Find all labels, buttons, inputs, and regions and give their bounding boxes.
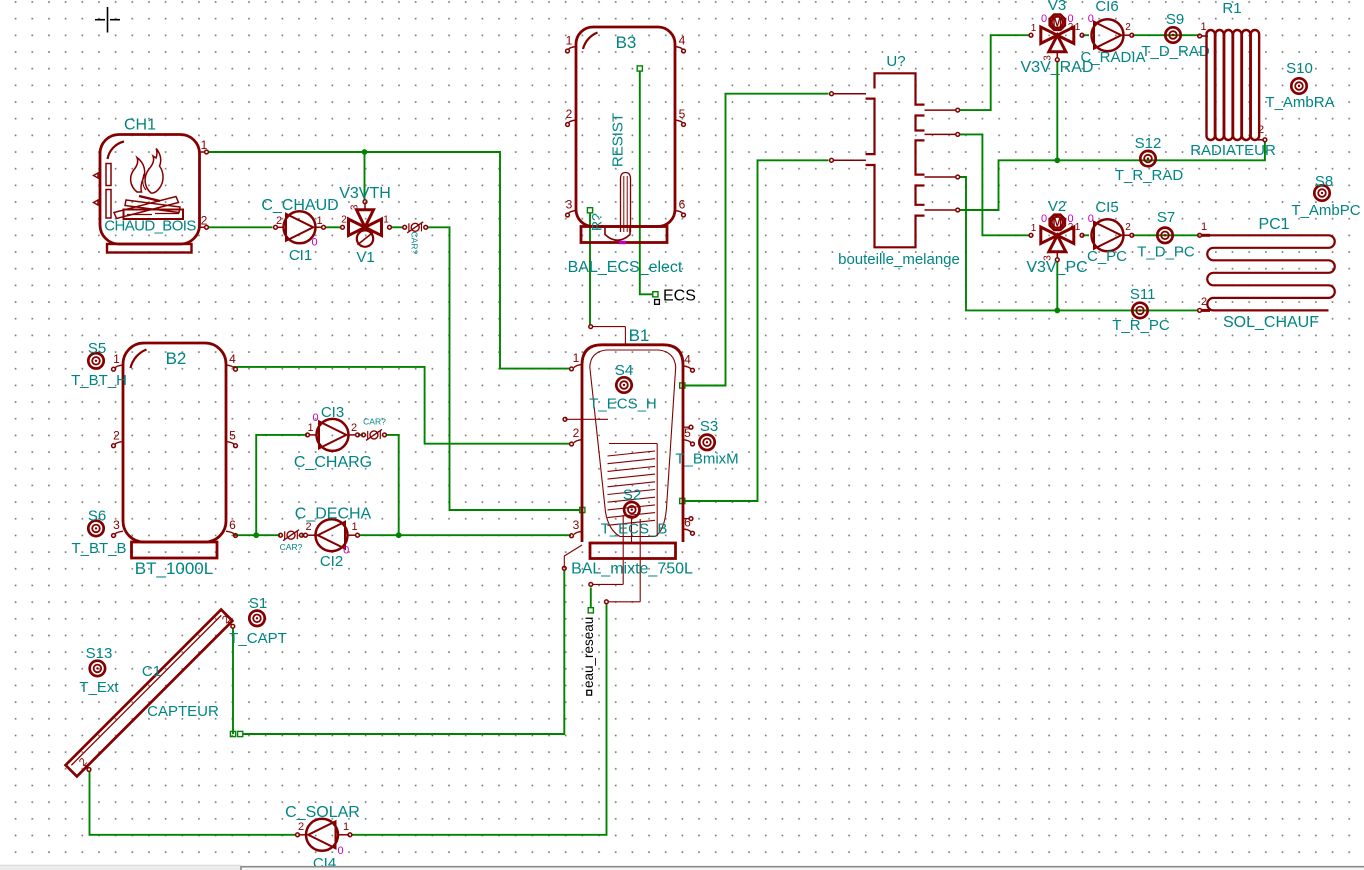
- svg-text:2: 2: [113, 428, 120, 442]
- sensor S8: [1314, 185, 1329, 200]
- svg-text:1: 1: [1200, 21, 1206, 33]
- svg-text:T_R_PC: T_R_PC: [1112, 317, 1170, 334]
- svg-text:6: 6: [229, 518, 236, 532]
- svg-text:BAL_ECS_elect: BAL_ECS_elect: [568, 259, 683, 276]
- svg-text:2: 2: [201, 213, 208, 227]
- collector C1 pin 1: [220, 613, 235, 628]
- svg-text:T_Ext: T_Ext: [79, 679, 119, 696]
- svg-text:2: 2: [341, 215, 347, 226]
- node junction CH1-V1: [362, 149, 368, 155]
- node square B1 right wall lower: [680, 498, 685, 503]
- check valve CAR1 after V1: [403, 222, 428, 233]
- label CH1: [124, 117, 156, 134]
- field 0 CI4: [337, 845, 343, 857]
- global label eau_reseau: [581, 617, 596, 695]
- wire CI4 pin1 to B1 bottom-right pipe: [353, 604, 607, 835]
- svg-text:CI3: CI3: [321, 404, 344, 421]
- svg-text:0: 0: [343, 545, 349, 557]
- svg-text:BAL_mixte_750L: BAL_mixte_750L: [571, 561, 693, 578]
- sensor S4: [616, 377, 631, 392]
- field 0 CI2: [343, 545, 349, 557]
- svg-text:1: 1: [573, 351, 580, 365]
- svg-text:CI2: CI2: [320, 553, 343, 570]
- label CI2: [320, 553, 343, 570]
- svg-text:R1: R1: [1222, 0, 1241, 17]
- label S1: [249, 595, 267, 612]
- hydraulic separator U? bouteille_melange: [830, 73, 960, 247]
- svg-text:T_ECS_B: T_ECS_B: [601, 521, 668, 538]
- label CI6: [1095, 0, 1118, 15]
- label S5: [88, 340, 106, 357]
- wire V3 bottom to return junction: [1056, 62, 1058, 160]
- check valve CAR3 after CI3: [362, 429, 387, 440]
- svg-text:T_R_RAD: T_R_RAD: [1115, 167, 1184, 184]
- sensor S1: [249, 611, 264, 626]
- svg-text:1: 1: [343, 821, 349, 833]
- label U?: [886, 53, 905, 70]
- tank B1 pins: [570, 351, 695, 537]
- wire CI2 to B1 pin3: [360, 534, 572, 536]
- svg-text:CAR?: CAR?: [363, 417, 386, 427]
- wire B1 right lower to bouteille pin2L: [685, 160, 829, 501]
- svg-text:5: 5: [229, 428, 236, 442]
- label BAL_ECS_elect: [568, 259, 683, 276]
- pin numbers R1: [1200, 21, 1264, 136]
- svg-text:4: 4: [679, 34, 686, 48]
- wire V2 to CI5: [1084, 234, 1089, 236]
- wire B1 bottom-left to collector top loop: [243, 571, 565, 735]
- label S11: [1130, 286, 1156, 303]
- svg-text:M: M: [1053, 17, 1063, 29]
- svg-text:0: 0: [1041, 13, 1047, 25]
- label bouteille_melange: [838, 251, 960, 268]
- label B1: [629, 326, 650, 345]
- svg-text:C_PC: C_PC: [1087, 248, 1127, 265]
- wire CH1 pin1 to B1 pin1 via (500,152): [209, 152, 570, 369]
- sensor S9: [1165, 27, 1180, 42]
- label R2: [589, 213, 605, 231]
- svg-text:2: 2: [573, 426, 580, 440]
- svg-text:T_CAPT: T_CAPT: [229, 630, 287, 647]
- label S13: [86, 645, 113, 662]
- svg-text:B2: B2: [166, 349, 187, 368]
- label PC1: [1258, 216, 1289, 233]
- label V2: [1048, 198, 1066, 215]
- svg-text:2: 2: [1125, 222, 1131, 233]
- label S6: [88, 508, 106, 525]
- svg-text:S1: S1: [249, 595, 267, 612]
- svg-text:C_DECHA: C_DECHA: [295, 506, 372, 523]
- pump CI1 C_CHAUD: [274, 211, 326, 243]
- svg-text:1: 1: [113, 352, 120, 366]
- svg-text:eau_reseau: eau_reseau: [581, 617, 596, 688]
- svg-text:C_CHAUD: C_CHAUD: [261, 197, 338, 214]
- svg-text:CI1: CI1: [289, 247, 312, 264]
- svg-text:T_D_PC: T_D_PC: [1137, 244, 1195, 261]
- tank B2 body BT_1000L: [123, 343, 226, 558]
- bottom scrollbar corner: [0, 865, 241, 870]
- label RESIST: [610, 113, 627, 167]
- svg-text:0: 0: [313, 412, 319, 424]
- label C_CHAUD: [261, 197, 338, 214]
- svg-text:T_BT_B: T_BT_B: [71, 540, 126, 557]
- pump CI3 C_CHARG: [306, 419, 360, 451]
- svg-text:1: 1: [1031, 223, 1037, 234]
- svg-text:S10: S10: [1286, 60, 1313, 77]
- svg-text:1: 1: [316, 215, 322, 227]
- label CI3: [321, 404, 344, 421]
- label B2: [166, 349, 187, 368]
- svg-text:3: 3: [573, 518, 580, 532]
- svg-text:S7: S7: [1157, 209, 1175, 226]
- svg-text:RADIATEUR: RADIATEUR: [1190, 142, 1276, 159]
- pin numbers CI3: [307, 422, 357, 434]
- svg-text:U?: U?: [886, 53, 905, 70]
- wire B2 pin4 to B1 pin2: [234, 367, 570, 444]
- node square B1 left wall: [580, 507, 585, 512]
- svg-text:0: 0: [1088, 213, 1094, 225]
- svg-text:2: 2: [1201, 296, 1207, 308]
- sensor S3: [699, 435, 714, 450]
- tank B3 pins: [566, 34, 686, 217]
- label CAPTEUR: [147, 703, 219, 720]
- label T_BT_H: [71, 372, 127, 389]
- svg-text:RESIST: RESIST: [610, 113, 627, 167]
- svg-text:S3: S3: [700, 418, 718, 435]
- wire R1 pin2 down to return line: [960, 142, 1265, 210]
- pump CI2 C_DECHA: [304, 519, 360, 551]
- svg-text:B1: B1: [629, 326, 650, 345]
- node junction B2-CI3 branch: [253, 532, 259, 538]
- svg-text:4: 4: [684, 353, 691, 367]
- svg-text:1: 1: [1075, 222, 1081, 233]
- valve V1 pins: [341, 215, 392, 230]
- sensor S2: [624, 502, 639, 517]
- label T_CAPT: [229, 630, 287, 647]
- svg-text:V3V_PC: V3V_PC: [1026, 259, 1087, 276]
- check valve CAR2 before CI2: [279, 530, 304, 541]
- svg-text:2: 2: [298, 821, 304, 833]
- svg-text:6: 6: [679, 198, 686, 212]
- svg-text:3: 3: [113, 518, 120, 532]
- label T_ECS_B: [601, 521, 668, 538]
- svg-text:CI5: CI5: [1095, 199, 1118, 216]
- pin number CI5 2: [1125, 222, 1131, 233]
- svg-text:S2: S2: [623, 487, 641, 504]
- global label ECS: [655, 288, 696, 305]
- label S9: [1166, 11, 1184, 28]
- svg-text:0: 0: [1067, 213, 1073, 225]
- svg-text:T_BT_H: T_BT_H: [71, 372, 127, 389]
- label V3V_PC: [1026, 259, 1087, 276]
- pump CI5 C_PC: [1092, 219, 1134, 251]
- wire V1 top pin to junction: [364, 152, 366, 200]
- valve V2 pins: [1029, 222, 1084, 237]
- svg-text:S4: S4: [615, 362, 633, 379]
- svg-text:1: 1: [566, 34, 573, 48]
- svg-text:1: 1: [1075, 22, 1081, 33]
- label CI1: [289, 247, 312, 264]
- label C1: [142, 663, 161, 680]
- valve V3 pins: [1029, 22, 1084, 37]
- svg-text:2: 2: [305, 521, 311, 533]
- label S7: [1157, 209, 1175, 226]
- svg-text:CAPTEUR: CAPTEUR: [147, 703, 219, 720]
- svg-text:2: 2: [1125, 22, 1131, 33]
- svg-text:1: 1: [1201, 221, 1207, 233]
- label CI5: [1095, 199, 1118, 216]
- svg-text:BT_1000L: BT_1000L: [135, 559, 213, 578]
- svg-text:5: 5: [679, 107, 686, 121]
- valve V2 V3V_PC: [1041, 215, 1074, 262]
- svg-text:2: 2: [566, 107, 573, 121]
- radiator R1 RADIATEUR: [1198, 30, 1267, 142]
- label V3: [1048, 0, 1066, 14]
- floor coil PC1 SOL_CHAUF: [1198, 233, 1335, 312]
- node square B3 internal top: [637, 66, 642, 71]
- label T_BmixM: [675, 451, 738, 468]
- wire collector pin1 down: [232, 628, 234, 734]
- sensor S6: [88, 521, 103, 536]
- svg-text:S5: S5: [88, 340, 106, 357]
- wire check valve to B1 left wall square: [428, 227, 580, 510]
- sensor S11: [1132, 303, 1147, 318]
- svg-text:0: 0: [337, 845, 343, 857]
- label C_SOLAR: [285, 804, 360, 821]
- label CAR2: [280, 542, 303, 552]
- label CAR1: [410, 232, 420, 255]
- wire B1 pipeA to eau_reseau: [590, 588, 592, 609]
- label S10: [1286, 60, 1313, 77]
- node square loop end A: [230, 731, 235, 736]
- svg-text:PC1: PC1: [1258, 216, 1289, 233]
- label T_ECS_H: [589, 396, 657, 413]
- svg-text:S11: S11: [1130, 286, 1156, 303]
- svg-text:S9: S9: [1166, 11, 1184, 28]
- label BT_1000L: [135, 559, 213, 578]
- valve V3 V3V_RAD: [1041, 15, 1074, 62]
- boiler CH1 pin 2: [200, 213, 209, 229]
- label S12: [1135, 135, 1162, 152]
- label SOL_CHAUF: [1223, 314, 1319, 331]
- label S3: [700, 418, 718, 435]
- tank B2 pins: [112, 352, 238, 537]
- svg-text:S12: S12: [1135, 135, 1162, 152]
- node square eau_reseau wire end: [588, 608, 593, 613]
- wire B3 internal to ECS label: [640, 71, 654, 294]
- field 0 V3 right: [1067, 13, 1073, 25]
- label C_PC: [1087, 248, 1127, 265]
- label S4: [615, 362, 633, 379]
- svg-text:C_RADIA: C_RADIA: [1080, 49, 1145, 66]
- cursor crosshair: [95, 7, 120, 33]
- label T_R_PC: [1112, 317, 1170, 334]
- field 0 V2 left: [1041, 213, 1047, 225]
- svg-text:3: 3: [566, 198, 573, 212]
- label T_AmbRA: [1265, 94, 1334, 111]
- svg-text:R?: R?: [589, 213, 605, 231]
- bottom panel edge: [241, 866, 1364, 870]
- label T_BT_B: [71, 540, 126, 557]
- node square B1 right wall upper: [680, 383, 685, 388]
- svg-text:T_ECS_H: T_ECS_H: [589, 396, 657, 413]
- svg-text:0: 0: [1041, 213, 1047, 225]
- label T_D_RAD: [1141, 43, 1210, 60]
- wire CAR3 to down joint: [386, 435, 399, 535]
- svg-text:V3VTH: V3VTH: [339, 185, 391, 202]
- svg-text:CI6: CI6: [1095, 0, 1118, 15]
- svg-text:S8: S8: [1315, 173, 1333, 190]
- svg-text:S13: S13: [86, 645, 113, 662]
- node junction CI2-CI3 right: [396, 532, 402, 538]
- wire B3 left pipe down to B1 top pin: [589, 213, 591, 325]
- label V3V_RAD: [1021, 59, 1094, 76]
- wire bouteille pin2R to valve V2: [960, 134, 1029, 235]
- field 0 V2 right: [1067, 213, 1073, 225]
- svg-text:1: 1: [1031, 23, 1037, 34]
- pin numbers PC1: [1201, 221, 1207, 308]
- svg-text:C_SOLAR: C_SOLAR: [285, 804, 360, 821]
- label C_CHARG: [294, 454, 372, 471]
- svg-text:bouteille_melange: bouteille_melange: [838, 251, 960, 268]
- wire CI5 to PC1 pin1 through S7: [1134, 234, 1198, 236]
- boiler CH1 pin 1: [200, 138, 209, 154]
- valve V1 V3VTH: [349, 200, 382, 247]
- label C_DECHA: [295, 506, 372, 523]
- label S8: [1315, 173, 1333, 190]
- field 0 V3 left: [1041, 13, 1047, 25]
- node square loop end B: [238, 731, 243, 736]
- sensor S5: [88, 353, 103, 368]
- svg-text:V2: V2: [1048, 198, 1066, 215]
- svg-text:B3: B3: [616, 33, 637, 52]
- pin numbers CI4: [298, 821, 349, 833]
- label V1: [356, 249, 374, 266]
- sensor S10: [1291, 78, 1306, 93]
- svg-text:2: 2: [276, 215, 282, 227]
- wire V3 to CI6: [1084, 34, 1089, 36]
- svg-text:V3: V3: [1048, 0, 1066, 14]
- label T_Ext: [79, 679, 119, 696]
- label CI4: [313, 855, 336, 870]
- tank B1 body BAL_mixte_750L: [562, 325, 683, 604]
- svg-text:1: 1: [201, 138, 208, 152]
- svg-text:CH1: CH1: [124, 117, 156, 134]
- collector C1 pin 2: [77, 756, 91, 771]
- pump CI4 C_SOLAR: [296, 819, 352, 851]
- wire B1 right upper to bouteille pin1L: [685, 94, 829, 386]
- label T_R_RAD: [1115, 167, 1184, 184]
- wire CI1 to V1: [326, 226, 342, 228]
- label B3: [616, 33, 637, 52]
- wire bouteille pin1R to valve V3: [960, 35, 1029, 110]
- wire CH1 pin2 to pump CI1: [209, 226, 273, 228]
- field 0 CI1: [311, 237, 317, 249]
- svg-text:1: 1: [351, 521, 357, 533]
- pump CI6 C_RADIA: [1092, 19, 1134, 51]
- svg-text:V1: V1: [356, 249, 374, 266]
- svg-text:T_AmbPC: T_AmbPC: [1291, 202, 1360, 219]
- label S2: [623, 487, 641, 504]
- field 0 CI3: [313, 412, 319, 424]
- svg-text:T_BmixM: T_BmixM: [675, 451, 738, 468]
- node junction floor return: [1054, 308, 1060, 314]
- svg-text:C1: C1: [142, 663, 161, 680]
- wire bouteille pin3R to PC1 pin2 through S11: [960, 177, 1198, 310]
- label CAR3: [363, 417, 386, 427]
- svg-text:3: 3: [350, 204, 361, 210]
- node square ECS wire end: [653, 292, 658, 297]
- svg-text:S6: S6: [88, 508, 106, 525]
- label BAL_mixte_750L: [571, 561, 693, 578]
- svg-text:ECS: ECS: [663, 288, 696, 305]
- svg-text:0: 0: [1067, 13, 1073, 25]
- tank B3 body BAL_ECS_elect: [576, 27, 675, 244]
- pin numbers CI2: [305, 521, 357, 533]
- wire CI6 to R1 pin1 through S9: [1134, 34, 1198, 36]
- svg-text:0: 0: [311, 237, 317, 249]
- wire B2 pin6 to CAR2: [234, 534, 281, 536]
- svg-text:0: 0: [1088, 13, 1094, 25]
- wire V2 bottom to floor return junction: [1056, 262, 1058, 310]
- wire junction up to CI3 pin1: [256, 435, 307, 535]
- label RADIATEUR: [1190, 142, 1276, 159]
- svg-text:2: 2: [351, 422, 357, 434]
- label T_AmbPC: [1291, 202, 1360, 219]
- svg-text:C_CHARG: C_CHARG: [294, 454, 372, 471]
- field 0 CI6: [1088, 13, 1094, 25]
- svg-text:CHAUD_BOIS: CHAUD_BOIS: [104, 218, 196, 235]
- svg-text:2: 2: [1258, 124, 1264, 136]
- svg-text:CAR?: CAR?: [410, 232, 420, 255]
- svg-text:T_AmbRA: T_AmbRA: [1265, 94, 1334, 111]
- solar collector C1 CAPTEUR: [66, 610, 233, 777]
- svg-text:T_D_RAD: T_D_RAD: [1141, 43, 1210, 60]
- label T_D_PC: [1137, 244, 1195, 261]
- node square B3 left pipe top: [587, 208, 592, 213]
- svg-text:SOL_CHAUF: SOL_CHAUF: [1223, 314, 1319, 331]
- label V3VTH: [339, 185, 391, 202]
- label CHAUD_BOIS: [104, 218, 196, 235]
- wire collector pin2 to pump CI4: [90, 772, 296, 835]
- svg-text:4: 4: [229, 352, 236, 366]
- sensor S13: [90, 661, 105, 676]
- wire CI3 pin2 to CAR3: [358, 434, 363, 436]
- sensor S12: [1140, 151, 1155, 166]
- svg-text:M: M: [1053, 218, 1063, 230]
- pin numbers CI1: [276, 215, 323, 227]
- boiler CH1 body CHAUD_BOIS: [94, 135, 200, 253]
- sensor S7: [1157, 228, 1172, 243]
- wire CAR2 to CI2: [302, 534, 304, 536]
- wire V1 pin1 to check valve: [392, 226, 404, 228]
- pin number CI6 2: [1125, 22, 1131, 33]
- svg-text:1: 1: [383, 215, 389, 226]
- svg-text:CAR?: CAR?: [280, 542, 303, 552]
- field 0 CI5: [1088, 213, 1094, 225]
- label R1: [1222, 0, 1241, 17]
- label C_RADIA: [1080, 49, 1145, 66]
- node junction radiator return: [1054, 157, 1060, 163]
